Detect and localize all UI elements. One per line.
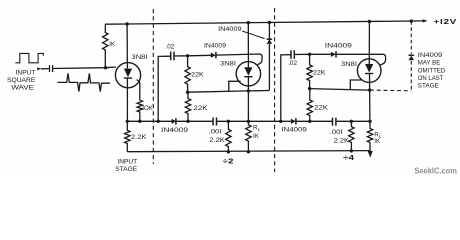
- node 22K-bus (stage3): [308, 120, 311, 123]
- svg-text:.02: .02: [288, 60, 297, 67]
- capacitor .02 (stage2): [170, 52, 172, 61]
- wire +12V rail: [105, 21, 423, 24]
- node Q3 cathode-bus / RL3: [368, 120, 371, 123]
- wire bus cap to Q2 node: [217, 120, 281, 122]
- diode 1N4009 (stage3 gate): [331, 52, 336, 57]
- svg-text:22K: 22K: [191, 71, 204, 78]
- wire diode to Q2 trigger: [216, 54, 262, 65]
- resistor 22K (stage3 upper): [307, 54, 312, 88]
- svg-text:STAGE: STAGE: [418, 84, 439, 90]
- resistor 2.2K (stage3): [349, 121, 354, 151]
- diode 1N4009 (bus stage2-3): [291, 119, 296, 124]
- wire riser stage2 input: [158, 56, 170, 121]
- capacitor C-in: [49, 65, 51, 72]
- node Q2 cathode-bus: [247, 120, 250, 123]
- transistor Q3 3N81: [357, 59, 381, 83]
- node rail-optional diode: [410, 19, 413, 22]
- node 2.2K-bus (stage3): [350, 120, 353, 123]
- wire gate stub (stage2): [229, 81, 241, 91]
- node gate-cathode (stage3): [368, 88, 371, 91]
- node rail-Q2: [247, 21, 250, 24]
- +12V arrow terminal: [423, 19, 428, 22]
- svg-text:IK: IK: [109, 41, 116, 48]
- wire Q1 anode from rail: [126, 24, 128, 69]
- svg-text:SeekIC.com: SeekIC.com: [414, 166, 457, 176]
- svg-text:22K: 22K: [313, 69, 326, 76]
- svg-text:IK: IK: [253, 133, 260, 140]
- input square wave symbol: [15, 53, 43, 62]
- wire gate junction to cathode (stage3): [310, 89, 370, 91]
- svg-text:3N8I: 3N8I: [341, 61, 357, 68]
- svg-text:22K: 22K: [314, 104, 329, 111]
- svg-text:MAY BE: MAY BE: [418, 61, 441, 67]
- resistor R 1K: [103, 24, 108, 67]
- wire diode to Q3 trigger: [337, 54, 386, 65]
- diode 1N4009 commutation (stage2): [267, 38, 273, 40]
- wire bus stage3 segments: [281, 120, 291, 122]
- wire gate stub (stage3): [350, 80, 361, 90]
- wire Q2 cathode: [247, 77, 249, 122]
- node R1/input junction: [104, 66, 107, 69]
- svg-text:RL: RL: [253, 124, 261, 132]
- resistor RL 1K (stage3): [367, 121, 372, 150]
- capacitor .001 (stage2): [212, 118, 214, 126]
- svg-text:WAVE: WAVE: [11, 85, 34, 92]
- svg-text:22K: 22K: [193, 105, 208, 112]
- resistor RL 1K (stage2): [246, 121, 251, 151]
- wire input to Q1 gate: [52, 67, 116, 69]
- svg-text:IN4009: IN4009: [218, 26, 242, 33]
- wire arrow to C-in: [41, 68, 49, 70]
- svg-text:3N8I: 3N8I: [132, 54, 148, 61]
- wire Q1 cathode: [126, 78, 128, 121]
- svg-text:IN4009: IN4009: [161, 127, 189, 134]
- output arrow (bottom right): [368, 151, 373, 158]
- resistor 2.2K (stage2): [226, 121, 231, 152]
- resistor 2.2K (stage1): [125, 121, 130, 151]
- capacitor .02 (stage3): [290, 50, 292, 59]
- capacitor .001 (stage3): [332, 118, 334, 126]
- svg-text:INPUT: INPUT: [117, 159, 137, 166]
- dashed separator 1: [152, 9, 154, 164]
- wire output bus stage1-2: [127, 120, 213, 122]
- resistor 22K (stage3 lower): [307, 89, 312, 122]
- svg-text:IN4009: IN4009: [325, 42, 353, 49]
- node 2.2K-bus (stage2): [227, 120, 230, 123]
- svg-text:IN4009: IN4009: [418, 53, 443, 59]
- svg-text:ON LAST: ON LAST: [418, 76, 444, 82]
- svg-text:÷2: ÷2: [223, 157, 234, 166]
- wire Q3 anode from rail: [368, 22, 370, 65]
- node 22K junction (stage3): [308, 87, 311, 90]
- svg-text:IN4009: IN4009: [281, 127, 307, 134]
- svg-text:÷4: ÷4: [343, 153, 355, 162]
- svg-text:INPUT: INPUT: [16, 69, 36, 76]
- input arrow: [37, 67, 41, 70]
- svg-text:IOK: IOK: [142, 105, 153, 112]
- node gate-cathode (stage2): [247, 89, 250, 92]
- wire cap to node A2: [174, 55, 188, 57]
- node A3: [308, 53, 311, 56]
- transistor Q1 3N81: [115, 63, 140, 88]
- svg-text:SQUARE: SQUARE: [7, 77, 35, 84]
- node 10K-bus: [138, 120, 141, 123]
- resistor 10K: [137, 100, 142, 121]
- svg-text:2.2K: 2.2K: [209, 137, 225, 144]
- svg-text:.02: .02: [166, 44, 175, 51]
- dashed wire optional diode column: [410, 21, 412, 54]
- node rail-Q1: [125, 22, 128, 25]
- node A2: [186, 54, 189, 57]
- dashed wire to optional diode: [370, 89, 411, 92]
- wire bottom line: [127, 151, 370, 152]
- node 22K-bus (stage2): [186, 120, 189, 123]
- wire Q3 cathode: [369, 74, 371, 122]
- svg-text:STAGE: STAGE: [115, 166, 137, 173]
- node 2.2K-bottom (stage2): [227, 150, 230, 153]
- wire gate junction to cathode (stage2): [188, 91, 270, 93]
- wire riser stage3 input: [281, 55, 291, 122]
- svg-text:IK: IK: [374, 138, 381, 145]
- wire Q1 anode-gate curl: [137, 80, 140, 100]
- wire node A3 to diode (stage3): [310, 53, 331, 55]
- leader line to commutation diode: [242, 31, 264, 39]
- wire commutation line (stage2): [268, 23, 270, 91]
- waveform sketch (differentiated pulses): [58, 73, 111, 91]
- svg-text:.00I: .00I: [330, 129, 343, 136]
- resistor 22K (stage2 lower): [185, 92, 190, 121]
- wire Q2 anode from rail: [247, 23, 249, 67]
- diode 1N4009 (bus stage1-2): [172, 119, 176, 124]
- node rail-Q3: [368, 20, 371, 23]
- node riser-bus stage2: [157, 120, 160, 123]
- svg-text:OMITTED: OMITTED: [418, 68, 446, 74]
- dashed separator 2: [274, 8, 276, 172]
- svg-text:.00I: .00I: [209, 129, 222, 136]
- diode 1N4009 (stage2 gate): [211, 53, 216, 58]
- node riser-bus stage3: [279, 120, 282, 123]
- diode 1N4009 optional: [409, 54, 415, 56]
- resistor 22K (stage2 upper): [185, 56, 190, 92]
- wire cap to node A3: [294, 53, 309, 55]
- node RL-bottom (stage2): [247, 150, 250, 153]
- wire node A2 to diode: [188, 54, 211, 57]
- svg-text:2.2K: 2.2K: [131, 134, 147, 141]
- svg-text:IN4009: IN4009: [204, 42, 227, 49]
- svg-text:2.2K: 2.2K: [334, 137, 350, 144]
- svg-text:+I2V: +I2V: [434, 17, 458, 26]
- transistor Q2 3N81: [236, 62, 260, 86]
- node Q1 cathode / 2.2K: [126, 120, 129, 123]
- node 2.2K-bottom (stage3): [350, 149, 353, 152]
- svg-text:3N8I: 3N8I: [220, 60, 236, 67]
- node rail-diode (stage2): [268, 21, 271, 24]
- node 22K junction (stage2): [186, 91, 189, 94]
